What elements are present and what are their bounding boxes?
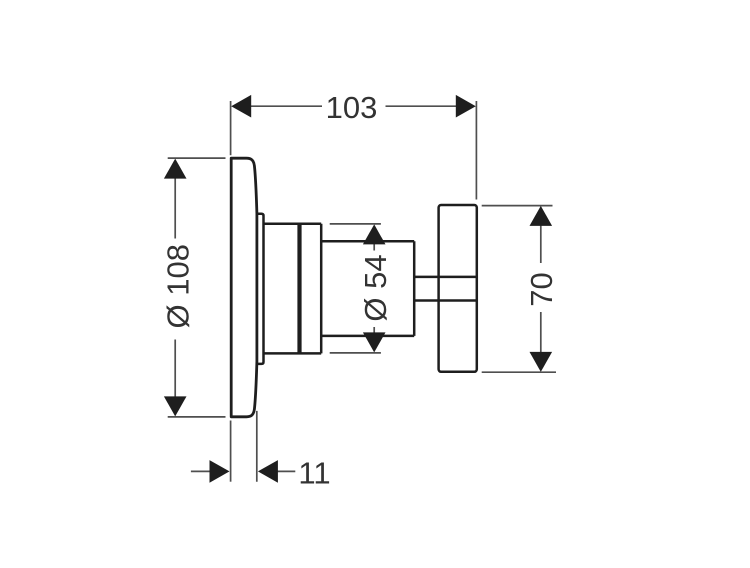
- svg-text:70: 70: [524, 272, 559, 306]
- svg-text:Ø 54: Ø 54: [358, 254, 393, 321]
- svg-text:103: 103: [326, 90, 378, 125]
- svg-text:Ø 108: Ø 108: [161, 244, 196, 328]
- svg-text:11: 11: [298, 456, 330, 491]
